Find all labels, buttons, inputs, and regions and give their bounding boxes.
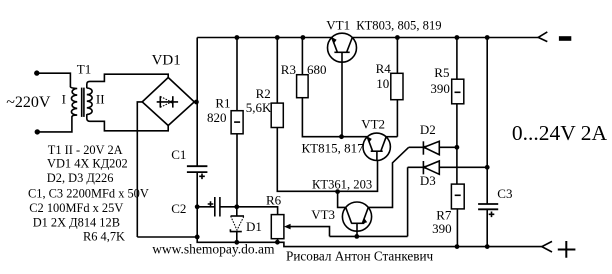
node AC input bottom terminal — [35, 129, 40, 134]
svg-text:R3: R3 — [281, 62, 296, 77]
capacitor C2 — [197, 197, 237, 217]
positive output plus sign — [558, 241, 576, 258]
svg-text:VT3: VT3 — [311, 207, 335, 222]
svg-text:~220V: ~220V — [6, 94, 51, 111]
bridge rectifier VD1 diamond — [142, 78, 194, 126]
svg-text:5,6K: 5,6K — [246, 100, 272, 115]
diode D2 — [409, 141, 457, 154]
node bottom rail R6 — [275, 240, 280, 245]
wire C1 down to bottom rail — [196, 172, 198, 237]
svg-text:C2 100MFd x 25V: C2 100MFd x 25V — [29, 201, 123, 215]
wire VT3 base line to D3 riser — [330, 235, 408, 237]
node bottom rail C1 — [195, 235, 200, 240]
wire VT3 left lead from branch node — [338, 192, 346, 208]
node R3 top — [301, 35, 306, 40]
svg-text:R4: R4 — [376, 61, 392, 76]
node bottom rail R7 — [455, 244, 460, 249]
node D3 C3 junction — [485, 165, 490, 170]
node AC input top terminal — [34, 70, 39, 75]
wire C2 node to R6 top — [237, 207, 278, 215]
svg-text:VD1: VD1 — [152, 53, 181, 69]
capacitor C1 — [187, 166, 208, 179]
svg-text:R2: R2 — [256, 86, 271, 101]
positive output terminal arrow — [542, 241, 552, 252]
wire input bottom to transformer primary — [37, 116, 72, 131]
resistor R1 — [231, 38, 243, 134]
svg-text:R6 4,7K: R6 4,7K — [83, 230, 125, 244]
wire bridge left vertex down to bottom rail — [137, 102, 142, 237]
node VT1 base junction — [339, 134, 344, 139]
transformer T1 primary winding I — [70, 87, 77, 117]
svg-text:820: 820 — [207, 110, 227, 125]
svg-text:II: II — [96, 91, 105, 106]
wire R2 bottom down and right to VT2 base — [277, 128, 377, 192]
transistor VT2 — [363, 133, 390, 161]
svg-text:КТ803, 805, 819: КТ803, 805, 819 — [356, 18, 441, 32]
wire main vertical from rail to C1 — [196, 38, 198, 167]
svg-text:D2, D3 Д226: D2, D3 Д226 — [47, 171, 114, 185]
diode D3 — [408, 161, 488, 174]
node C2 left — [195, 204, 200, 209]
wire D3 left riser down to VT3 base line — [407, 167, 409, 236]
resistor R2 — [271, 38, 283, 128]
negative output terminal arrow — [538, 32, 547, 42]
svg-text:C1, C3 2200MFd x 50V: C1, C3 2200MFd x 50V — [28, 187, 149, 201]
node R2 top — [275, 35, 280, 40]
svg-text:C2: C2 — [171, 201, 186, 216]
diode symbol inside VD1 — [157, 96, 178, 107]
node bottom rail D1 — [234, 240, 239, 245]
svg-text:0...24V 2A: 0...24V 2A — [512, 121, 608, 145]
potentiometer R6 — [271, 215, 329, 243]
svg-text:T1: T1 — [77, 62, 91, 77]
svg-text:I: I — [62, 91, 66, 106]
svg-text:R6: R6 — [266, 192, 282, 207]
negative output minus sign — [559, 36, 571, 41]
zener diode D1 — [230, 207, 244, 243]
svg-text:VT2: VT2 — [361, 117, 385, 132]
svg-text:R5: R5 — [434, 65, 449, 80]
capacitor C3 — [478, 204, 498, 247]
wire R3 bottom to VT2 base line — [302, 98, 367, 137]
svg-text:D2: D2 — [420, 122, 436, 137]
top rail right segment — [352, 37, 538, 39]
node VT3 base junction — [354, 234, 359, 239]
svg-text:VD1 4X КД202: VD1 4X КД202 — [47, 157, 128, 171]
wire VT3 right lead up to D2 — [368, 147, 408, 207]
transistor VT3 — [342, 202, 371, 236]
transistor VT1 — [328, 33, 357, 137]
node bridge output junction — [194, 100, 199, 105]
node bottom rail C3 — [485, 244, 490, 249]
node C2 right D1 top — [234, 204, 239, 209]
svg-text:C1: C1 — [171, 147, 186, 162]
svg-text:390: 390 — [430, 81, 450, 96]
node VT3 branch on base line — [335, 189, 340, 194]
resistor R3 — [297, 38, 309, 98]
svg-text:10: 10 — [376, 76, 389, 91]
node R1 top — [235, 35, 240, 40]
svg-text:Рисовал Антон Станкевич: Рисовал Антон Станкевич — [286, 248, 434, 263]
wire C3 branch vertical — [486, 38, 488, 204]
wire secondary bottom lead to bridge bottom vertex — [87, 114, 168, 131]
svg-text:C3: C3 — [497, 186, 512, 201]
wire bridge right vertex to main positive vertical — [194, 101, 197, 103]
node R4 top — [395, 35, 400, 40]
resistor R5 — [452, 38, 464, 148]
node D2 R5 R7 junction — [455, 145, 460, 150]
transformer T1 core — [81, 88, 83, 117]
wire VT2 collector to R4 — [386, 136, 397, 138]
svg-text:390: 390 — [432, 221, 452, 236]
svg-text:D1 2X Д814 12В: D1 2X Д814 12В — [33, 215, 120, 229]
svg-text:D1: D1 — [246, 219, 262, 234]
wire secondary top lead to bridge — [87, 74, 168, 88]
wire input top to transformer primary — [37, 73, 71, 87]
wire R1 bottom to D1 node — [236, 134, 238, 207]
resistor R7 — [451, 147, 464, 246]
resistor R4 — [391, 38, 403, 137]
svg-text:T1 II - 20V 2A: T1 II - 20V 2A — [48, 143, 123, 157]
svg-text:VT1: VT1 — [326, 17, 350, 32]
svg-text:680: 680 — [307, 62, 327, 77]
node R5 top — [455, 35, 460, 40]
transformer T1 secondary winding II — [87, 88, 92, 114]
svg-text:www.shemopay.do.am: www.shemopay.do.am — [152, 241, 275, 256]
svg-text:КТ361, 203: КТ361, 203 — [312, 178, 372, 192]
top rail left segment — [197, 37, 332, 39]
svg-text:КТ815, 817: КТ815, 817 — [302, 141, 365, 156]
svg-text:R1: R1 — [215, 95, 230, 110]
svg-text:D3: D3 — [420, 173, 436, 188]
node C3 branch top — [485, 35, 490, 40]
bottom rail left segment — [137, 237, 542, 247]
